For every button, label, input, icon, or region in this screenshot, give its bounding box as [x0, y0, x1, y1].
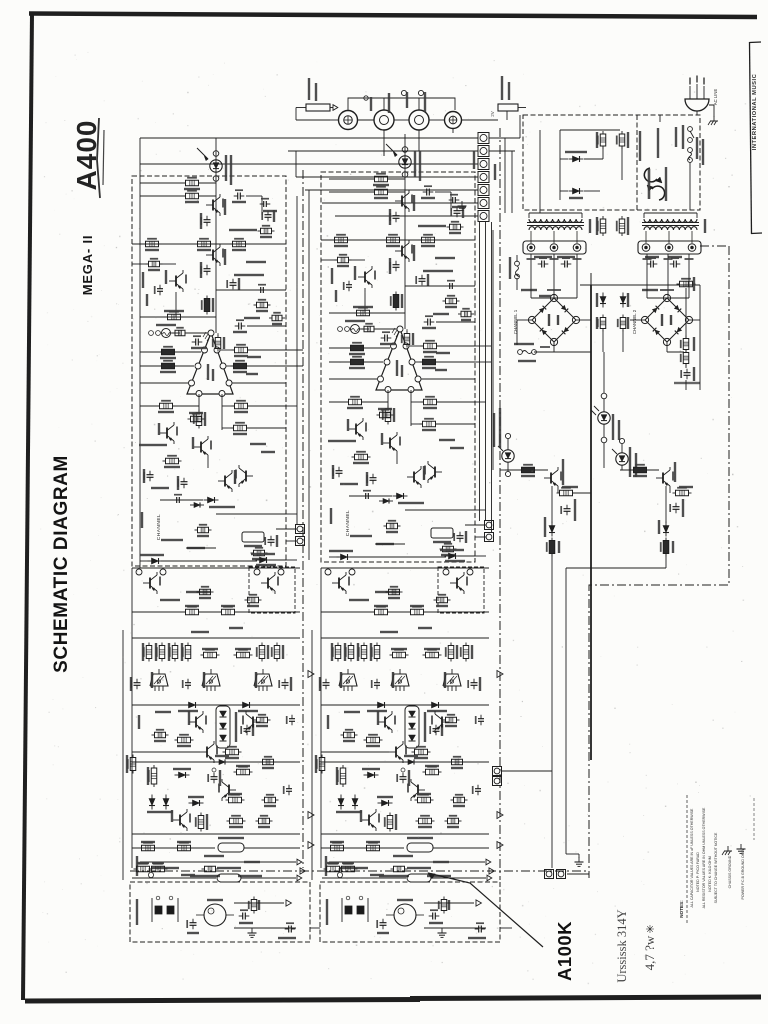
wire feedback row: [140, 316, 216, 318]
border frame bottom: [25, 1000, 420, 1002]
power transistor Q13: [254, 674, 272, 686]
mains dashed enclosure: [523, 115, 700, 210]
label left net: [142, 272, 144, 288]
annotation arrow line: [428, 873, 543, 947]
resistor R85: [155, 732, 166, 738]
wire top bus: [132, 567, 300, 569]
capacitor C36: [181, 481, 188, 483]
resistor R67 vertical: [683, 339, 689, 350]
resistor R65 vertical: [620, 318, 626, 329]
wire caps row ch2: [646, 254, 648, 264]
label top extra 2: [494, 164, 496, 180]
wire out: [234, 902, 284, 904]
resistor R31: [222, 609, 235, 615]
resistor R63 vertical: [619, 219, 625, 233]
fuse F2 with label: [306, 104, 330, 111]
capacitor C44: [211, 776, 218, 778]
wire ch1 stub rows: [286, 349, 303, 351]
resistor R66: [680, 281, 693, 287]
resistor R43 vertical: [198, 816, 204, 829]
capacitor C17: [673, 506, 680, 508]
capacitor C50: [190, 922, 197, 924]
transistor Q06: [166, 428, 168, 439]
bridge rectifier B01: [532, 298, 576, 342]
fuse F4: [515, 261, 520, 266]
resistor R80: [200, 589, 211, 595]
resistor R86: [263, 759, 274, 765]
svg-text:4,7 ?w: 4,7 ?w: [642, 935, 657, 970]
potentiometer VR01: [162, 329, 171, 338]
transistor Q03: [212, 200, 214, 211]
transistor Q15: [252, 717, 254, 728]
wire stack drop 3: [491, 222, 493, 533]
channel dashed enclosure: [132, 176, 286, 566]
wire interchannel 2: [308, 190, 310, 560]
input board dashed enclosure: [130, 882, 310, 942]
resistor R23: [235, 403, 248, 409]
svg-text:MEGA- II: MEGA- II: [80, 235, 95, 296]
jack J1 CH1 out: [445, 112, 462, 129]
transistor Q17: [228, 785, 230, 796]
label right col rows: [263, 210, 277, 212]
resistor R17: [162, 349, 175, 355]
resistor R10: [198, 241, 211, 247]
label emitter row: [191, 631, 209, 633]
diode D42: [194, 502, 200, 507]
resistor R46: [178, 845, 191, 851]
wire bus 285: [580, 284, 700, 286]
arrow out low2: [308, 842, 314, 849]
bridge rectifier B02: [645, 298, 689, 342]
resistor R89: [205, 866, 216, 872]
wire bottom bus to psu: [310, 927, 320, 929]
resistor R18: [162, 363, 175, 369]
resistor R49: [272, 315, 282, 321]
op-amp IC01 TA7250: [187, 333, 233, 394]
resistor R29: [149, 261, 160, 267]
jack J2 CH2 out: [339, 111, 358, 130]
ac line plug: [685, 99, 709, 111]
wire stack drop 1: [479, 222, 481, 521]
wire q row bus: [505, 469, 548, 471]
diode D05: [152, 558, 159, 564]
label bridge B02 ratings: [660, 289, 674, 291]
capacitor C16: [260, 287, 262, 293]
wire opamp left pin3: [140, 382, 188, 384]
svg-text:CHANNEL: CHANNEL: [156, 514, 162, 540]
diode D4: [663, 526, 669, 533]
resistor R72 vertical: [549, 541, 555, 554]
handwritten A100K: [554, 921, 575, 981]
capacitor C201: [237, 193, 239, 200]
resistor R19: [235, 347, 248, 353]
emitter resistor R34: [172, 646, 178, 659]
tube V01: [204, 904, 226, 926]
label thermal breaker: [665, 167, 667, 201]
resistor R70: [522, 467, 535, 473]
transistor Q05: [175, 276, 177, 287]
capacitor C13: [230, 282, 237, 284]
wire interchannel 1: [296, 196, 298, 525]
svg-text:AC LINE: AC LINE: [713, 89, 718, 105]
diode D41: [208, 497, 215, 503]
wire row 875 labels: [190, 875, 220, 877]
label psu misc 1: [521, 289, 537, 291]
transistor Q07: [200, 442, 202, 453]
wire ch2 input to psu: [500, 927, 512, 929]
label mono stereo: [161, 539, 183, 541]
svg-text:ALL RESISTOR VALUES ARE IN OHM: ALL RESISTOR VALUES ARE IN OHM UNLESS OT…: [702, 807, 706, 908]
svg-text:SCHEMATIC DIAGRAM: SCHEMATIC DIAGRAM: [51, 455, 72, 673]
emitter resistor R33: [159, 646, 165, 659]
transformer connector block: [523, 241, 586, 254]
transistor Q16: [206, 747, 208, 758]
wire row 700: [132, 704, 300, 706]
resistor R87: [265, 797, 276, 803]
wire row 520: [216, 513, 286, 515]
label net 440: [250, 443, 266, 445]
resistor R68 vertical: [683, 353, 689, 364]
input jack contacts: [151, 898, 153, 922]
wire psu link rows: [500, 469, 505, 471]
wire psu inner: [559, 130, 561, 200]
resistor R36: [204, 652, 217, 658]
resistor R24: [234, 425, 247, 431]
capacitor C12: [204, 268, 211, 270]
svg-text:SUBJECT TO CHANGE WITHOUT NOTI: SUBJECT TO CHANGE WITHOUT NOTICE: [714, 832, 718, 903]
handwritten model number A400: [71, 120, 102, 191]
resistor R16 vertical: [215, 338, 221, 349]
resistor R09: [146, 241, 159, 247]
notes block: [679, 795, 754, 925]
channel 2 output stage (copy): [312, 567, 503, 880]
pcb boundary between channels: [302, 170, 304, 868]
capacitor C51: [242, 913, 244, 920]
diode D06: [260, 557, 267, 563]
wire switch to transformer: [689, 162, 691, 210]
capacitor C17: [157, 288, 163, 290]
wire stack to psu: [489, 137, 520, 139]
resistor R81: [248, 597, 259, 603]
connector pair channel1 out: [296, 525, 305, 534]
wire row 878: [132, 877, 216, 879]
wire row 640: [132, 637, 300, 639]
resistor R45: [142, 845, 155, 851]
fuse AG21: [518, 350, 523, 355]
vertical wire right of ch2 box: [492, 230, 494, 470]
resistor R88: [259, 818, 270, 824]
wire row 862 with arrow: [140, 861, 296, 863]
capacitor C7: [564, 508, 571, 510]
wire psu mid: [554, 351, 591, 353]
resistor R83 vertical: [274, 646, 280, 659]
capacitor C10: [204, 219, 211, 221]
resistor R38: [178, 737, 191, 743]
pcb boundary bottom: [130, 870, 589, 872]
label top extra 1: [473, 151, 475, 169]
ch1 peak led LD31: [505, 433, 510, 438]
wire left verticals: [131, 568, 133, 868]
label driver bias: [186, 591, 210, 593]
resistor R13 vertical: [204, 299, 210, 312]
resistor R37: [237, 652, 250, 658]
capacitor C61: [564, 261, 566, 268]
svg-text:✳: ✳: [645, 924, 654, 936]
resistor R75 vertical: [663, 541, 669, 554]
transformer T01: [523, 213, 591, 254]
ch2 peak led LD32: [619, 438, 624, 443]
wire jack drops: [383, 130, 385, 156]
wire row 548: [186, 547, 216, 549]
chassis ground ac: [709, 105, 714, 117]
diode D13: [219, 759, 225, 764]
svg-text:Urssissk 314Y: Urssissk 314Y: [615, 909, 629, 982]
channel 2 amplifier board (copy): [321, 134, 486, 562]
channel 1 input board: [130, 862, 310, 942]
power transistor Q12: [202, 674, 220, 686]
resistor R06: [186, 180, 199, 186]
thermal breaker: [644, 168, 657, 182]
channel 2 input board (copy): [320, 862, 500, 942]
capacitor C60: [541, 261, 543, 268]
capacitor C30: [147, 474, 154, 476]
led LD2 protection indicator: [213, 151, 219, 157]
transistor Q09 with terminals: [136, 569, 142, 575]
resistor R64 vertical: [600, 318, 606, 329]
capacitor C14: [238, 323, 240, 330]
fuse F1 mains: [688, 148, 693, 153]
svg-text:2V: 2V: [490, 111, 495, 117]
resistor R52 vertical: [251, 900, 257, 911]
resistor R22 vertical: [196, 413, 202, 426]
capacitor C42: [282, 682, 289, 684]
resistor R07: [186, 193, 199, 199]
diode D08: [243, 702, 250, 708]
capacitor C62: [650, 261, 652, 268]
transformer T02 (copy): [638, 213, 706, 254]
connector psu low: [493, 767, 502, 776]
wire bridge feed ch1: [530, 264, 532, 298]
transistor Q14: [195, 717, 197, 728]
power transistor Q11 CA1102: [150, 674, 168, 686]
label bias net: [246, 261, 266, 263]
svg-text:NOTED K: KILO OHM: NOTED K: KILO OHM: [708, 856, 712, 892]
label psu misc 2: [642, 289, 658, 291]
resistor R42: [229, 797, 242, 803]
wire jack bracket: [348, 98, 455, 110]
fuse resistor FR2: [217, 874, 241, 882]
label phone out terminal: [388, 93, 390, 113]
capacitor C03: [195, 339, 197, 346]
capacitor C64: [684, 372, 691, 374]
resistor R61 vertical: [619, 134, 625, 146]
capacitor C40: [134, 682, 141, 684]
wire long drops: [551, 554, 553, 868]
diode D3: [549, 526, 555, 533]
resistor R30: [186, 609, 199, 615]
resistor R60 vertical: [600, 134, 606, 146]
wire bridge leads: [553, 342, 555, 352]
pcb boundary psu right: [589, 246, 729, 878]
resistor R82 vertical: [259, 646, 265, 659]
resistor R44: [230, 818, 243, 824]
circle terminal bottom: [148, 872, 153, 877]
label A06/158: [674, 382, 700, 384]
svg-text:CHANNEL 2: CHANNEL 2: [632, 309, 637, 334]
zener D10 D11 pair: [149, 799, 155, 806]
transistor Q18: [179, 815, 181, 826]
arrow out mid: [308, 671, 314, 678]
triple diode block MA728: [216, 706, 230, 748]
resistor R14: [168, 314, 181, 320]
cluster thermal compound: [242, 532, 264, 542]
power led LD30: [601, 393, 607, 399]
svg-text:INTERNATIONAL MUSIC: INTERNATIONAL MUSIC: [752, 73, 758, 150]
wire opamp right pin5: [232, 382, 286, 384]
capacitor C43: [244, 728, 251, 730]
resistor R26: [166, 458, 179, 464]
diode D23: [620, 297, 626, 304]
connector psu bottom: [545, 870, 554, 879]
svg-text:NOTED P: PICO FARAD: NOTED P: PICO FARAD: [696, 852, 700, 892]
label low rows: [204, 855, 224, 857]
fuse F1 with label: [498, 104, 518, 111]
ground psu bottom: [566, 853, 579, 855]
connector stack CN1: [478, 133, 489, 144]
arrow out low1: [308, 812, 314, 819]
wire stack drop 2: [485, 222, 487, 521]
resistor R20: [234, 363, 247, 369]
connector pair channel2 out: [485, 521, 494, 530]
diode D07: [189, 702, 196, 708]
label row 488: [151, 487, 169, 489]
resistor R50: [137, 866, 150, 872]
wire row 848: [132, 847, 215, 849]
wire bridge feed ch2: [646, 264, 648, 298]
driver sub-enclosure: [249, 567, 295, 613]
resistor R27: [261, 228, 272, 234]
wire row 762: [132, 761, 300, 763]
label input: [136, 899, 138, 925]
legend chassis ground: [727, 846, 729, 851]
capacitor C63: [673, 261, 675, 268]
wire opamp base pins: [198, 394, 200, 412]
resistor R84: [257, 717, 268, 723]
wire row 244: [132, 243, 286, 245]
resistor R48: [198, 527, 209, 533]
wire right column: [685, 288, 687, 338]
label A06/220: [234, 274, 264, 276]
resistor R28: [257, 302, 268, 308]
svg-text:NOTES:: NOTES:: [679, 900, 684, 918]
diode D20: [573, 156, 580, 162]
wire row 529: [276, 528, 297, 530]
resistor R74: [676, 490, 689, 496]
resistor R71: [560, 490, 573, 496]
wire bus rows: [140, 137, 478, 139]
transistor Q04: [212, 250, 214, 261]
fuse resistor FR1: [218, 843, 244, 852]
emitter resistor R32: [146, 646, 152, 659]
border frame top: [29, 14, 757, 18]
resistor R21: [160, 403, 173, 409]
svg-text:CHASSIS GROUND: CHASSIS GROUND: [728, 855, 732, 888]
handwritten scribble 1: [615, 909, 629, 982]
wire row 290: [216, 289, 286, 291]
diode D12: [193, 800, 200, 806]
resistor R25: [191, 416, 202, 422]
legend pcb ground: [740, 844, 742, 849]
capacitor C45: [289, 718, 295, 720]
label transformer taps T02: [643, 258, 652, 260]
pcb boundary channel2 psu: [499, 128, 501, 880]
label A06/020: [139, 444, 167, 446]
capacitor C19: [263, 201, 265, 207]
resistor R62 vertical: [600, 219, 606, 233]
diode D22: [600, 297, 606, 304]
capacitor C41: [185, 682, 191, 684]
emitter resistor R35: [185, 646, 191, 659]
capacitor C46: [286, 788, 292, 790]
wire jack row: [357, 119, 374, 121]
diode D21: [573, 188, 580, 194]
resistor R51: [152, 866, 165, 872]
wire stub row 264: [132, 263, 148, 265]
diode D09: [179, 772, 186, 778]
label A06/B7: [229, 229, 257, 231]
resistor R15: [175, 330, 185, 336]
resistor R11: [233, 241, 246, 247]
legend third: [753, 798, 755, 840]
handwritten scribble 2: [642, 935, 657, 970]
svg-text:POWER P.C.B GROUND ONLY: POWER P.C.B GROUND ONLY: [741, 848, 745, 900]
wire ch2 stub rows: [475, 345, 491, 347]
wire row 612: [132, 611, 185, 613]
scan speckle noise: [324, 200, 325, 201]
label mid net: [155, 711, 171, 713]
arrow out low3: [300, 868, 305, 874]
resistor R73: [634, 467, 647, 473]
title block bracket INTERNATIONAL MUSIC: [750, 42, 752, 234]
capacitor C18: [176, 497, 178, 503]
jack output terminal B: [409, 110, 429, 130]
transistor Q08: [224, 476, 226, 487]
label out: [278, 937, 296, 939]
resistor R40 tall: [151, 768, 157, 784]
wire row 834: [132, 833, 300, 835]
transistor Q19: [245, 471, 247, 482]
wire bus verticals: [139, 138, 141, 568]
label bridge B01 ratings: [547, 289, 561, 291]
svg-text:A100K: A100K: [554, 921, 575, 981]
capacitor C15: [265, 214, 272, 216]
ground channel2 top: [461, 201, 463, 206]
ground input: [251, 928, 253, 933]
svg-text:ALL CAPACITOR VALUES ARE IN uF: ALL CAPACITOR VALUES ARE IN uF UNLESS OT…: [690, 808, 694, 907]
channel 1 output stage: [123, 567, 314, 880]
transistor Q2 psu: [662, 473, 664, 484]
border frame left: [23, 13, 32, 1000]
resistor R39: [226, 749, 239, 755]
transistor Q1 psu: [550, 473, 552, 484]
transistor Q10 with terminals: [254, 569, 260, 575]
capacitor C52: [288, 926, 290, 933]
wire caps row ch1: [530, 254, 532, 264]
resistor R41: [237, 769, 250, 775]
wire main vertical: [215, 138, 217, 333]
channel 1 amplifier board: [132, 138, 297, 566]
resistor R47 vertical: [130, 758, 136, 771]
